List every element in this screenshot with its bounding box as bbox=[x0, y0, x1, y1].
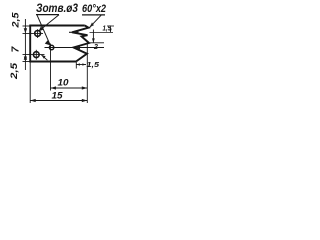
svg-text:15: 15 bbox=[52, 91, 64, 101]
svg-text:2,5: 2,5 bbox=[9, 62, 19, 81]
svg-text:10: 10 bbox=[58, 78, 69, 88]
svg-text:2,5: 2,5 bbox=[11, 11, 21, 28]
svg-text:Зотв.ø3: Зотв.ø3 bbox=[36, 1, 78, 15]
svg-text:2: 2 bbox=[93, 44, 98, 51]
svg-text:60°х2: 60°х2 bbox=[82, 3, 106, 15]
svg-text:1,5: 1,5 bbox=[103, 24, 112, 33]
svg-text:1,5: 1,5 bbox=[87, 60, 100, 69]
